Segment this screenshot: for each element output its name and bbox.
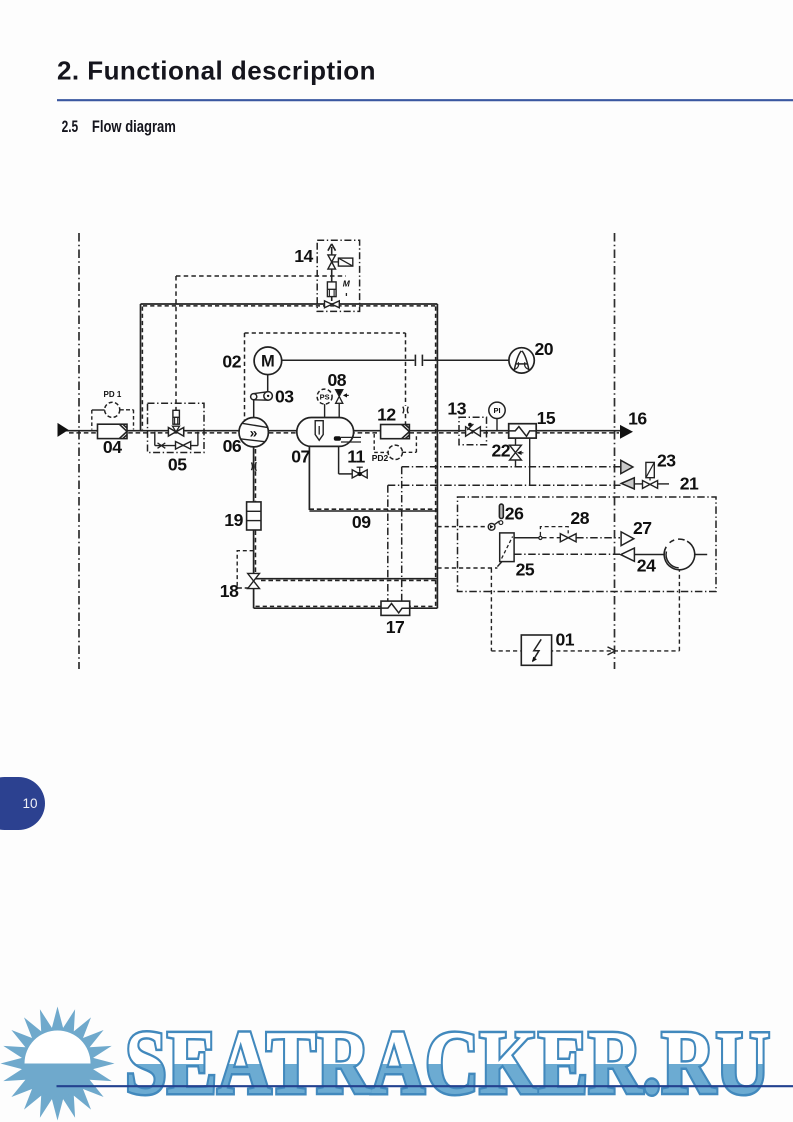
svg-text:M: M (343, 279, 351, 289)
label 21 (680, 473, 699, 493)
svg-text:04: 04 (103, 437, 122, 457)
motor 02 (254, 347, 282, 375)
svg-text:01: 01 (556, 629, 575, 649)
svg-text:PD 1: PD 1 (104, 390, 122, 399)
svg-text:10: 10 (22, 796, 37, 811)
svg-text:M: M (261, 353, 275, 371)
label 20 (535, 339, 554, 359)
label 06 (223, 436, 242, 456)
svg-text:15: 15 (537, 408, 556, 428)
wire package enclosure right edge (436, 304, 438, 608)
svg-text:SEATRACKER.RU: SEATRACKER.RU (125, 1012, 770, 1113)
wire package enclosure top edge (141, 304, 438, 306)
power supply 01 (521, 635, 551, 665)
label 03 (275, 387, 294, 407)
outlet arrow 16 (620, 425, 633, 439)
label 23 (657, 451, 676, 471)
separator vessel 07 (297, 418, 361, 447)
label 24 (637, 556, 656, 576)
label 19 (224, 510, 243, 530)
svg-text:09: 09 (352, 512, 371, 532)
wire blowdown vertical from compressor 06 (254, 447, 256, 608)
coupling 03 (251, 375, 273, 418)
gauge PI (489, 402, 505, 431)
label M override of 14 (343, 279, 351, 289)
wire control line to 21 (388, 485, 621, 601)
svg-text:27: 27 (633, 518, 652, 538)
svg-text:PI: PI (493, 406, 500, 415)
heat exchanger 17 (381, 601, 410, 615)
node left battery-limit line (78, 233, 80, 669)
node inner skid box 02 unit (245, 333, 406, 430)
wire package enclosure bottom edge (254, 606, 438, 608)
wire motor to alarm line (282, 359, 509, 361)
node flexible joint on discharge (403, 407, 409, 414)
wire control line 05 to 14 (176, 276, 346, 410)
svg-text:13: 13 (447, 398, 466, 418)
node connection symbol at 23 line (621, 460, 633, 473)
svg-text:26: 26 (505, 503, 524, 523)
wire main flow line (58, 431, 621, 433)
navy footer line (57, 1085, 793, 1087)
alarm horn 20 (509, 348, 534, 373)
temperature sensor 26 (488, 504, 503, 530)
node connection symbol 27 (621, 532, 634, 546)
blowdown valve 18 (237, 551, 259, 589)
minimum pressure valve 13 (459, 417, 487, 445)
pressure switch PS (317, 389, 332, 417)
svg-text:18: 18 (220, 581, 239, 601)
wire separator drop leg (308, 446, 310, 510)
svg-text:28: 28 (570, 508, 589, 528)
oil pump (634, 539, 707, 570)
label 04 (103, 437, 122, 457)
node connection symbol 24 (621, 548, 635, 561)
watermark (1, 1007, 793, 1121)
svg-text:»: » (250, 425, 258, 441)
suction regulator 05 (148, 403, 205, 452)
relief valve 08 (336, 390, 349, 418)
node connection symbol at 21 line (621, 478, 634, 489)
svg-text:25: 25 (516, 559, 535, 579)
svg-text:03: 03 (275, 387, 294, 407)
svg-text:07: 07 (291, 446, 310, 466)
svg-text:02: 02 (222, 352, 241, 372)
label 17 (386, 617, 405, 637)
svg-text:20: 20 (535, 339, 554, 359)
muffler 19 (247, 502, 261, 530)
svg-text:2.5: 2.5 (62, 118, 79, 136)
gauge PD1 (92, 402, 134, 429)
wire control line to 23 (402, 467, 620, 601)
drain valve 11 (339, 446, 368, 478)
solenoid valve 23 (634, 462, 669, 488)
check valve 15 (509, 424, 537, 438)
page number pill (0, 777, 45, 830)
wire economizer return line (254, 579, 438, 581)
sun rays (1, 1007, 115, 1121)
label PD 1 (104, 390, 122, 399)
label 27 (633, 518, 652, 538)
label 09 (352, 512, 371, 532)
svg-text:08: 08 (328, 370, 347, 390)
node flexible joint below 06 (252, 462, 257, 471)
svg-text:2. Functional description: 2. Functional description (57, 55, 376, 85)
wire oil return line 09 (309, 509, 437, 511)
node capacitor-style break (415, 355, 422, 366)
svg-text:PS: PS (320, 392, 330, 401)
label PD2 (372, 453, 389, 463)
label 15 (537, 408, 556, 428)
svg-text:06: 06 (223, 436, 242, 456)
orifice valve 28 (560, 534, 620, 542)
svg-text:Flow diagram: Flow diagram (92, 118, 176, 136)
label 16 (628, 409, 647, 429)
label 01 (556, 629, 575, 649)
label 14 (294, 246, 313, 266)
wire oil dashed to 25 bottom (437, 567, 497, 569)
node oil module box (458, 497, 717, 592)
wire 25 lower port to 24 (514, 553, 620, 555)
svg-text:PD2: PD2 (372, 453, 389, 463)
label 22 (492, 441, 511, 461)
svg-text:21: 21 (680, 473, 699, 493)
svg-text:23: 23 (657, 451, 676, 471)
label 18 (220, 581, 239, 601)
svg-text:24: 24 (637, 556, 656, 576)
svg-text:05: 05 (168, 455, 187, 475)
label 26 (505, 503, 524, 523)
svg-text:12: 12 (377, 404, 396, 424)
label 25 (516, 559, 535, 579)
label 28 (570, 508, 589, 528)
label 07 (291, 446, 310, 466)
thermostatic valve 25 (497, 533, 514, 567)
svg-text:22: 22 (492, 441, 511, 461)
label 02 (222, 352, 241, 372)
label 05 (168, 455, 187, 475)
wire control wiring to 01 (491, 569, 679, 655)
svg-text:17: 17 (386, 617, 405, 637)
solenoid blowoff assembly 14 (317, 240, 359, 311)
sun disc (25, 1031, 91, 1097)
label 11 (347, 446, 365, 466)
svg-text:14: 14 (294, 246, 313, 266)
filter silencer 04 (98, 424, 128, 438)
header (57, 55, 793, 136)
gauge PD2 (374, 434, 416, 459)
svg-text:19: 19 (224, 510, 243, 530)
svg-text:11: 11 (347, 446, 365, 466)
inlet arrow (58, 423, 69, 437)
wire package enclosure left edge (141, 304, 143, 432)
label 08 (328, 370, 347, 390)
label 13 (447, 398, 466, 418)
compressor 06 (239, 418, 268, 447)
wire oil supply dashed to 26 (437, 526, 488, 528)
bypass valve 22 (510, 438, 530, 485)
discharge check unit 12 (381, 425, 410, 439)
wire 25 to 28 (514, 527, 568, 540)
node right battery-limit line (614, 233, 616, 669)
label 12 (377, 404, 396, 424)
svg-text:16: 16 (628, 409, 647, 429)
